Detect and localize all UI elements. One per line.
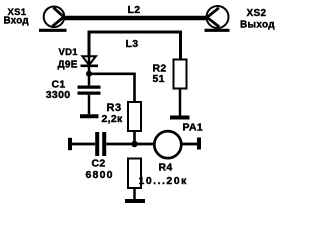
svg-text:Д9Е: Д9Е: [58, 59, 78, 70]
chassis bar under R2: [170, 116, 190, 120]
svg-text:2,2к: 2,2к: [102, 113, 123, 125]
chassis bar under R4: [125, 199, 145, 203]
wire L2 (thick line XS1 to XS2): [63, 16, 207, 20]
wire node B to PA1: [135, 143, 155, 146]
svg-text:L3: L3: [126, 38, 139, 50]
node A (junction under diode): [86, 71, 92, 77]
terminal bar right of PA1: [197, 138, 201, 150]
resistor R4: [128, 159, 141, 200]
wire diode anode/cathode through: [88, 33, 91, 74]
terminal bar left of C2: [68, 138, 72, 150]
wire PA1 to terminal: [182, 143, 198, 146]
meter PA1: [154, 131, 181, 158]
diode VD1: [81, 56, 99, 66]
svg-text:XS2: XS2: [247, 8, 267, 19]
resistor R2: [174, 60, 187, 116]
svg-text:Выход: Выход: [240, 20, 275, 31]
svg-text:3300: 3300: [46, 89, 71, 101]
resistor R3: [128, 102, 141, 144]
svg-text:Вход: Вход: [4, 16, 30, 27]
connector XS2: [205, 6, 230, 30]
svg-text:6800: 6800: [86, 169, 114, 181]
wire node A to R3 top: [89, 74, 135, 102]
svg-text:R4: R4: [159, 162, 173, 174]
svg-text:VD1: VD1: [59, 47, 79, 58]
inductor L3 (coupling line): [89, 32, 181, 60]
node B (central junction): [131, 141, 137, 147]
svg-text:10...20к: 10...20к: [139, 175, 188, 187]
svg-text:PA1: PA1: [183, 122, 204, 134]
capacitor C1: [78, 74, 101, 114]
svg-text:L2: L2: [128, 4, 141, 16]
capacitor C2: [72, 132, 135, 156]
svg-text:C2: C2: [92, 157, 106, 169]
svg-text:51: 51: [153, 73, 165, 85]
connector XS1: [39, 6, 67, 30]
chassis bar under C1: [80, 114, 99, 118]
